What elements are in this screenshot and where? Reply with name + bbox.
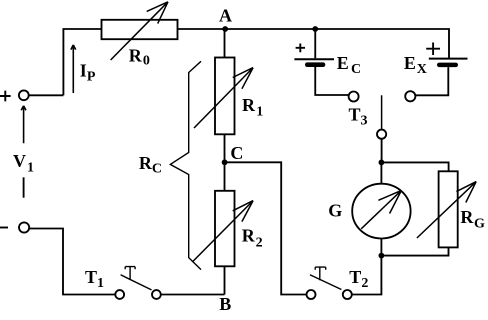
battery EC positive plate — [294, 58, 334, 60]
battery EX positive plate — [429, 58, 468, 60]
switch T1 blade — [121, 275, 152, 290]
switch T1 handle — [125, 267, 135, 280]
terminal circle V1 plus — [19, 90, 29, 100]
svg-text:EX: EX — [404, 53, 427, 77]
wire: T2 to galvanometer bottom node — [352, 256, 382, 295]
wire: V1 mid segment — [23, 177, 25, 197]
plus sign of EX — [426, 43, 440, 56]
svg-text:T1: T1 — [85, 267, 104, 291]
wire: node A down to R1 — [224, 29, 226, 58]
terminal circle V1 minus — [19, 222, 29, 232]
resistor R0 — [102, 20, 178, 39]
arrow IP — [71, 45, 76, 93]
svg-text:G: G — [328, 200, 342, 220]
wire: R2 to node B — [224, 266, 226, 294]
switch T2 handle — [315, 267, 326, 280]
brace RC — [170, 61, 201, 269]
wire: bottom node to RG bottom — [381, 247, 448, 255]
battery EX negative plate — [437, 63, 458, 68]
svg-text:EC: EC — [337, 53, 361, 77]
wire: node C to T2 — [225, 162, 307, 294]
wire: T3 pole to top node — [381, 139, 383, 163]
wire: T1 to node B — [161, 294, 225, 296]
wire: top node to RG top — [381, 162, 448, 171]
switch T3 blade — [381, 95, 383, 129]
svg-text:A: A — [219, 5, 232, 25]
svg-text:RG: RG — [460, 207, 485, 231]
rheostat RG — [439, 171, 458, 247]
arrow of source V1 — [21, 106, 26, 143]
minus sign of V1 — [0, 227, 8, 229]
plus sign of EC — [296, 44, 305, 53]
svg-text:B: B — [219, 294, 231, 314]
switch T1 left terminal — [115, 290, 124, 299]
node: EC top junction dot — [312, 26, 318, 32]
switch T3 right terminal — [405, 91, 415, 101]
svg-text:T2: T2 — [349, 267, 368, 291]
svg-text:R1: R1 — [242, 95, 263, 120]
arrow R2 — [192, 201, 253, 262]
arrow inside G — [361, 190, 401, 228]
wire: EC to T3 left terminal — [315, 67, 348, 95]
svg-text:IP: IP — [80, 60, 96, 84]
wire: EX to T3 right terminal — [415, 67, 448, 95]
arrow R1 — [194, 68, 253, 128]
node C junction dot — [222, 159, 228, 165]
switch T3 left terminal — [349, 92, 359, 102]
wire: G bottom stub — [380, 239, 382, 256]
wire: V1 plus terminal to riser — [29, 94, 64, 96]
battery EC negative plate — [305, 62, 325, 67]
svg-text:V1: V1 — [13, 151, 34, 176]
plus sign of V1 — [0, 91, 11, 102]
node: G top junction dot — [379, 160, 385, 166]
arrow RG — [417, 182, 476, 238]
switch T1 right terminal — [152, 290, 161, 299]
wire: R0 to node A to EX top — [178, 29, 450, 58]
arrow R0 — [111, 2, 168, 60]
wire: R1 to node C to R2 — [224, 134, 226, 191]
wire: EC top — [314, 29, 316, 58]
svg-text:C: C — [230, 143, 243, 163]
node: G bottom junction dot — [379, 253, 385, 259]
switch T2 right terminal — [343, 290, 352, 299]
switch T3 pole terminal — [377, 130, 386, 139]
resistor R1 — [215, 58, 235, 135]
svg-text:R0: R0 — [129, 45, 150, 68]
svg-text:R2: R2 — [242, 226, 263, 251]
svg-text:RC: RC — [139, 153, 162, 176]
galvanometer G body — [352, 184, 410, 239]
wire: V1 minus to T1 — [29, 229, 115, 295]
resistor R2 — [215, 191, 235, 266]
node A junction dot — [222, 26, 228, 32]
wire: G top to top node — [380, 162, 382, 183]
svg-text:T3: T3 — [349, 105, 368, 129]
switch T2 left terminal — [307, 290, 316, 299]
switch T2 blade — [310, 275, 342, 290]
wire: top rail from left riser to R0 — [63, 29, 101, 95]
